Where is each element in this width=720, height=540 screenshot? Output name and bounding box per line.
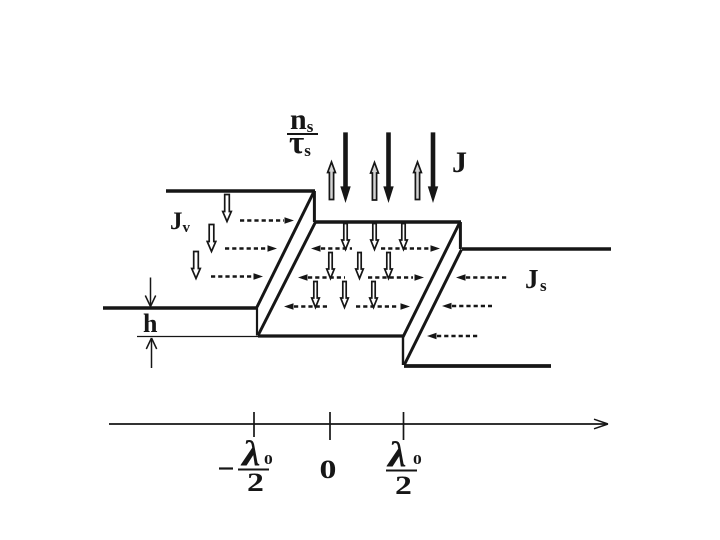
terrace T1 open down arrow 3 (192, 252, 201, 279)
step face S1 bottom slant edge (258, 222, 316, 336)
terrace T1 back edge (166, 189, 315, 192)
terrace T3 back edge (462, 247, 611, 250)
h extension thin line (137, 336, 258, 338)
terrace T2 open down arrow r3c3 (370, 282, 378, 308)
h measure down arrow (145, 278, 155, 307)
fraction bar n_s/tau_s (287, 133, 318, 135)
flux J solid down arrow 1 (341, 133, 350, 201)
terrace T1 open down arrow 1 (223, 195, 232, 222)
svg-text:J: J (452, 146, 467, 179)
T3 dashed arrow left row2 (452, 305, 492, 308)
h measure up arrow (146, 338, 156, 368)
T1 dashed diffusion arrow row2 (225, 247, 267, 250)
step face S1 back vertical edge (313, 191, 316, 222)
terrace T2 open down arrow r1c2 (371, 224, 379, 250)
flux J solid down arrow 2 (384, 133, 393, 201)
axis tick lambda0/2 (403, 412, 405, 440)
terrace T1 front edge (103, 306, 257, 309)
step face S2 bottom slant edge (405, 250, 462, 365)
svg-text:0: 0 (413, 453, 422, 468)
terrace T2 open down arrow r1c3 (400, 224, 408, 250)
terrace T2 open down arrow r1c1 (342, 224, 350, 250)
x axis arrowhead (594, 419, 608, 429)
step face S1 top slant edge (257, 193, 314, 308)
T2 dashed arrow left row1 (321, 247, 352, 250)
vapour open up arrow 3 (414, 162, 422, 200)
vapour open up arrow 1 (328, 162, 336, 200)
T1 dashed diffusion arrow row1 (240, 219, 284, 222)
fraction bar right (386, 470, 417, 472)
svg-text:2: 2 (247, 468, 264, 497)
terrace T2 open down arrow r2c3 (385, 253, 393, 279)
label minus sign (219, 467, 233, 469)
terrace T2 open down arrow r2c2 (356, 253, 364, 279)
T2 dashed arrow right row1 (381, 247, 429, 250)
T3 dashed arrow left row1 (466, 276, 509, 279)
T2 dashed arrow right row3 (356, 305, 399, 308)
terrace T2 open down arrow r2c1 (327, 253, 335, 279)
step face S2 top slant edge (403, 223, 460, 337)
axis tick 0 (329, 412, 331, 440)
T3 dashed arrow left row3 (437, 335, 480, 338)
fraction bar left (238, 469, 269, 471)
T1 dashed diffusion arrow row3 (211, 275, 253, 278)
terrace T2 open down arrow r3c1 (312, 282, 320, 308)
svg-text:0: 0 (320, 455, 337, 484)
terrace T2 open down arrow r3c2 (341, 282, 349, 308)
T2 dashed arrow left row2 (308, 276, 345, 279)
step face S2 front vertical edge (402, 337, 404, 365)
svg-text:h: h (143, 309, 158, 338)
step face S1 front vertical edge (256, 307, 258, 336)
step face S2 back vertical edge (459, 222, 462, 249)
terrace T2 back edge (315, 220, 461, 223)
flux J solid down arrow 3 (429, 133, 438, 201)
vapour open up arrow 2 (371, 163, 379, 201)
terrace T1 open down arrow 2 (207, 225, 216, 252)
terrace T3 front edge (404, 364, 551, 368)
T2 dashed arrow left row3 (294, 305, 327, 308)
x axis line (109, 423, 606, 425)
T2 dashed arrow right row2 (368, 276, 413, 279)
axis tick -lambda0/2 (253, 412, 255, 437)
svg-text:0: 0 (264, 453, 273, 468)
svg-text:2: 2 (395, 471, 412, 500)
svg-text:λ: λ (386, 435, 407, 475)
terrace T2 front edge (258, 334, 403, 337)
